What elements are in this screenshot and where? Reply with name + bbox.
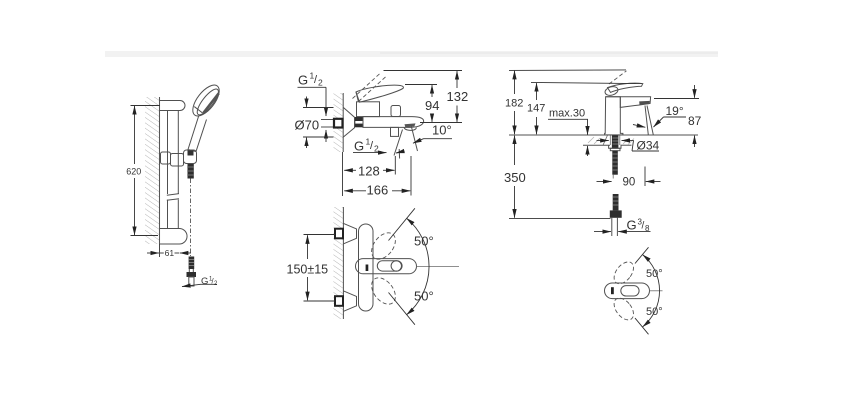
svg-text:128: 128	[358, 164, 380, 179]
svg-text:147: 147	[527, 103, 545, 115]
svg-text:Ø34: Ø34	[637, 139, 660, 153]
svg-text:50°: 50°	[414, 289, 434, 304]
svg-text:2: 2	[318, 78, 323, 88]
svg-text:87: 87	[688, 114, 702, 128]
svg-text:G: G	[298, 73, 308, 88]
svg-text:G: G	[354, 139, 364, 154]
svg-text:61: 61	[165, 248, 175, 258]
svg-text:G: G	[201, 276, 208, 287]
svg-text:max.30: max.30	[549, 108, 585, 120]
svg-text:19°: 19°	[666, 104, 684, 118]
svg-text:Ø70: Ø70	[295, 118, 320, 133]
svg-text:10°: 10°	[432, 123, 452, 138]
svg-text:2: 2	[374, 144, 379, 154]
svg-text:150±15: 150±15	[287, 263, 329, 277]
svg-text:50°: 50°	[646, 306, 663, 318]
svg-text:182: 182	[505, 98, 523, 110]
svg-text:94: 94	[425, 98, 439, 113]
svg-text:166: 166	[367, 183, 389, 198]
svg-text:620: 620	[126, 166, 141, 176]
svg-text:G: G	[627, 218, 637, 233]
svg-text:132: 132	[447, 89, 469, 104]
svg-text:350: 350	[504, 170, 526, 185]
svg-text:8: 8	[645, 224, 650, 233]
svg-text:90: 90	[623, 177, 636, 189]
svg-text:50°: 50°	[646, 268, 663, 280]
svg-text:50°: 50°	[414, 234, 434, 249]
